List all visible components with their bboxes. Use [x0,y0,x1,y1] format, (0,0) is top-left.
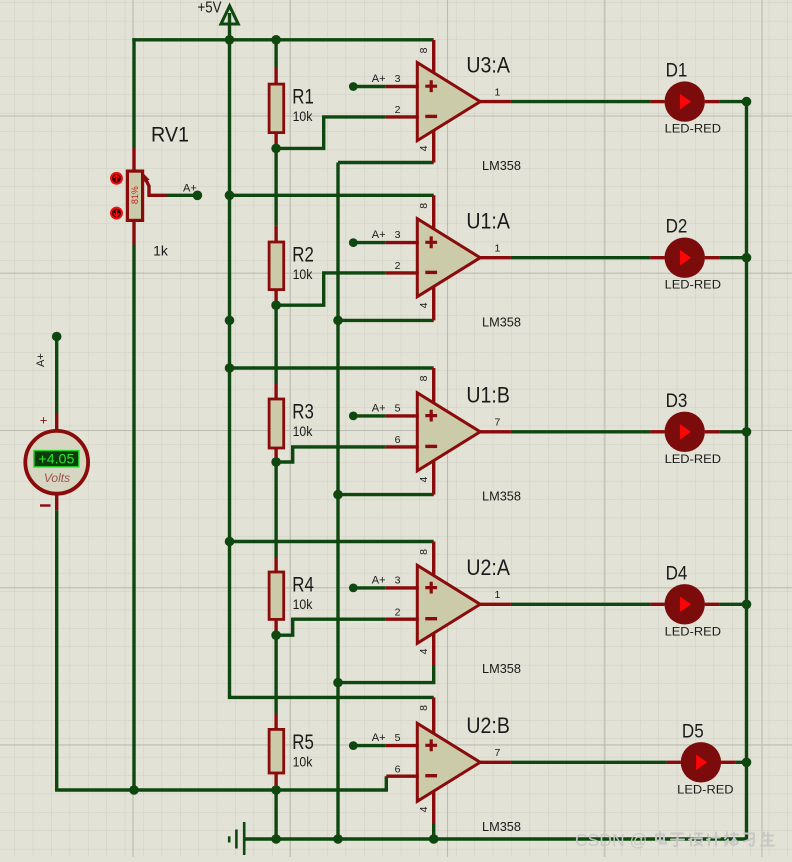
svg-text:D2: D2 [666,216,688,238]
svg-text:8: 8 [418,705,430,711]
wire R3 bottom to U1:B pin 6 [276,447,385,462]
led D5 (LED-RED) [667,720,736,796]
svg-text:3: 3 [395,229,401,241]
junction rail / +5V vertical [225,35,235,45]
wire D1 to cathode rail [719,100,746,103]
svg-text:D3: D3 [666,390,688,412]
svg-text:+: + [40,412,48,427]
wire D3 to cathode rail [719,430,746,433]
svg-text:10k: 10k [293,108,314,124]
op-amp U1:B (LM358) [385,368,521,503]
junction +5V vertical (segment join) [225,316,235,326]
svg-text:A+: A+ [372,73,386,85]
svg-text:+4.05: +4.05 [38,451,74,466]
wire R4 bottom to U2:A pin 2 [276,619,385,635]
svg-text:4: 4 [418,302,430,308]
wire A+ stub to U2:B pin 5 [353,744,385,747]
potentiometer RV1 [111,123,189,259]
junction R2 bottom [271,300,281,310]
svg-text:5: 5 [395,732,401,744]
svg-text:10k: 10k [293,753,314,769]
svg-text:LED-RED: LED-RED [665,624,722,638]
voltmeter VM1 [25,412,88,510]
ground symbol [229,822,244,855]
svg-text:RV1: RV1 [151,123,189,147]
wire U1:B output to D3 [511,430,651,433]
svg-text:LED-RED: LED-RED [665,278,722,292]
wire +5V distribution vertical [230,40,434,698]
svg-text:6: 6 [395,434,401,446]
junction ground / U2:A pin4 [333,678,343,688]
junction +5V / U1:A feed [225,191,235,201]
svg-text:D5: D5 [682,720,704,742]
wire U2:B pin4 to bus [432,824,435,839]
led D1 (LED-RED) [650,60,721,136]
svg-text:A+: A+ [372,732,386,744]
junction collector / ground bus [333,834,343,844]
svg-text:7: 7 [495,417,501,429]
wire rail to RV1 top [132,38,135,148]
junction RV1 / ground bus [129,785,139,795]
svg-text:4: 4 [418,145,430,151]
junction +5V / U2:A feed [225,537,235,547]
junction rail / D4 [742,600,752,610]
svg-text:10k: 10k [293,596,314,612]
op-amp U3:A (LM358) [385,40,521,173]
svg-text:8: 8 [418,549,430,555]
svg-text:+5V: +5V [198,0,223,17]
resistor R3 [269,384,314,462]
junction R1 bottom [271,144,281,154]
wire ground return (voltmeter/RV1/R5) [57,510,387,790]
wire U1:A output to D2 [511,256,651,259]
wire divider chain [274,40,277,67]
svg-text:D4: D4 [666,562,688,584]
wire U2:B output to D5 [511,761,667,764]
svg-text:R2: R2 [292,242,314,266]
svg-text:A+: A+ [372,574,386,586]
svg-text:LED-RED: LED-RED [665,122,722,136]
wire U2:A pin4 branch [338,666,434,683]
svg-text:U1:A: U1:A [466,209,510,234]
wire D4 to cathode rail [719,603,746,606]
svg-text:5: 5 [395,402,401,414]
junction ground / U1:A pin4 [333,316,343,326]
op-amp U2:B (LM358) [385,697,521,834]
svg-text:10k: 10k [293,266,314,282]
node A+ at U2:A [349,584,358,593]
svg-text:7: 7 [495,747,501,759]
svg-text:LED-RED: LED-RED [677,782,734,796]
svg-text:U2:A: U2:A [466,555,510,580]
svg-text:LM358: LM358 [482,158,521,173]
junction rail / R1 top [271,35,281,45]
svg-text:LM358: LM358 [482,819,521,834]
svg-text:10k: 10k [293,423,314,439]
junction U2:B pin4 / ground bus [429,834,439,844]
svg-text:A+: A+ [183,182,197,194]
op-amp U1:A (LM358) [385,195,521,329]
svg-text:R5: R5 [292,730,314,754]
svg-text:2: 2 [395,606,401,618]
wire U1:B pin4 branch [338,493,434,496]
junction R4 bottom [271,630,281,640]
watermark [575,830,774,850]
svg-text:2: 2 [395,260,401,272]
svg-text:1: 1 [495,243,501,255]
wire voltmeter plus [55,337,58,414]
svg-text:2: 2 [395,104,401,116]
op-amp U2:A (LM358) [385,542,521,676]
svg-text:4: 4 [418,476,430,482]
svg-text:A+: A+ [35,353,47,367]
wire D5 to cathode rail [736,761,747,764]
junction rail / D1 [742,97,752,107]
wire U1:A pin8 feed [230,194,434,197]
node A+ at U1:A [349,238,358,247]
junction chain / ground bus [271,834,281,844]
node A+ (voltmeter) [52,332,62,342]
led D4 (LED-RED) [650,562,721,638]
svg-text:R1: R1 [292,85,314,109]
wire U3:A pin4 branch [338,161,434,164]
led D3 (LED-RED) [650,390,721,466]
resistor R5 [269,714,314,790]
svg-text:R3: R3 [292,399,314,423]
svg-text:LM358: LM358 [482,661,521,676]
wire U1:A pin4 branch [338,319,434,322]
svg-text:3: 3 [395,73,401,85]
power symbol +5V [198,0,239,41]
svg-text:Volts: Volts [44,471,70,485]
svg-text:8: 8 [418,375,430,381]
svg-text:8: 8 [418,47,430,53]
svg-text:CSDN @: CSDN @ [575,830,647,850]
resistor R2 [269,225,314,305]
wire +5V top rail [132,38,433,41]
node A+ (wiper) [193,191,203,201]
svg-text:R4: R4 [292,572,314,596]
svg-text:6: 6 [395,763,401,775]
resistor R1 [269,67,314,148]
wire A+ stub to U1:B pin 5 [353,414,385,417]
node A+ at U2:B [349,741,358,750]
svg-text:U3:A: U3:A [466,53,510,78]
wire U1:B pin8 feed [230,366,434,369]
svg-text:1: 1 [495,589,501,601]
svg-text:U1:B: U1:B [466,383,510,408]
svg-text:U2:B: U2:B [466,713,510,738]
node A+ at U1:B [349,412,358,421]
svg-text:A+: A+ [372,402,386,414]
wire A+ stub to U2:A pin 3 [353,586,385,589]
junction R3 bottom [271,457,281,467]
wire U2:A output to D4 [511,603,651,606]
wire ground bus bottom [244,837,746,840]
svg-text:LED-RED: LED-RED [665,452,722,466]
wire A+ stub to U1:A pin 3 [353,241,385,244]
wire A+ stub to U3:A pin 3 [353,85,385,88]
led D2 (LED-RED) [650,216,721,292]
resistor R4 [269,557,314,635]
svg-text:LM358: LM358 [482,314,521,329]
svg-text:81%: 81% [130,186,140,204]
svg-text:A+: A+ [372,229,386,241]
svg-text:8: 8 [418,203,430,209]
wire D2 to cathode rail [719,256,746,259]
wire LED cathode rail to ground [745,102,747,839]
svg-text:3: 3 [395,574,401,586]
svg-text:D1: D1 [666,60,688,82]
wire U2:A pin8 feed [230,540,434,543]
junction rail / D3 [742,427,752,437]
wire U3:A output to D1 [511,100,651,103]
junction R5 bottom [271,785,281,795]
node A+ at U3:A [349,82,358,91]
svg-text:4: 4 [418,806,430,812]
wire RV1 wiper to A+ [167,194,198,197]
wire ground collector vertical [336,163,339,840]
wire R1 bottom to U3:A pin 2 [276,117,385,148]
junction rail / D2 [742,253,752,263]
svg-text:1: 1 [495,86,501,98]
wire RV1 bottom to ground bus [132,245,135,791]
junction ground / U1:B pin4 [333,490,343,500]
wire R2 bottom to U1:A pin 2 [276,273,385,305]
svg-text:LM358: LM358 [482,488,521,503]
junction rail / D5 [742,758,752,768]
junction +5V / U1:B feed [225,363,235,373]
svg-text:1k: 1k [153,243,169,259]
svg-text:4: 4 [418,648,430,654]
